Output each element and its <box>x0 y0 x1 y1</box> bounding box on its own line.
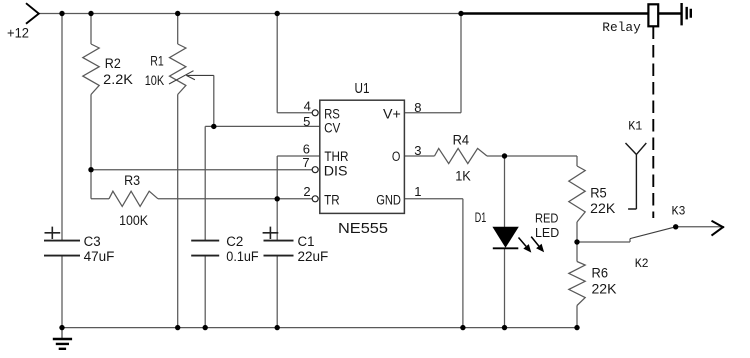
svg-text:LED: LED <box>535 226 559 240</box>
svg-text:3: 3 <box>414 143 421 158</box>
svg-text:Relay: Relay <box>602 20 641 35</box>
svg-text:TR: TR <box>324 193 340 208</box>
svg-text:R3: R3 <box>124 173 140 188</box>
svg-text:2: 2 <box>303 184 310 199</box>
svg-text:D1: D1 <box>475 210 487 225</box>
svg-text:0.1uF: 0.1uF <box>226 249 258 264</box>
svg-text:22uF: 22uF <box>298 249 329 264</box>
svg-text:DIS: DIS <box>324 164 348 179</box>
svg-text:RS: RS <box>324 107 340 122</box>
svg-text:K3: K3 <box>672 204 686 219</box>
svg-text:7: 7 <box>302 155 309 170</box>
svg-text:C1: C1 <box>298 234 315 249</box>
svg-text:R1: R1 <box>150 53 164 68</box>
svg-text:R5: R5 <box>590 185 607 200</box>
svg-text:47uF: 47uF <box>84 249 115 264</box>
svg-text:GND: GND <box>376 193 401 208</box>
svg-text:K1: K1 <box>628 118 642 133</box>
svg-text:10K: 10K <box>145 73 165 88</box>
svg-text:RED: RED <box>535 212 558 226</box>
svg-text:THR: THR <box>324 149 348 164</box>
svg-text:22K: 22K <box>592 282 617 297</box>
svg-text:C2: C2 <box>226 234 243 249</box>
svg-text:4: 4 <box>304 98 311 113</box>
svg-text:22K: 22K <box>590 201 615 216</box>
svg-text:O: O <box>392 149 401 164</box>
svg-text:5: 5 <box>303 114 310 129</box>
svg-text:R2: R2 <box>105 56 121 71</box>
svg-text:2.2K: 2.2K <box>103 72 133 87</box>
svg-text:V+: V+ <box>383 107 401 122</box>
svg-text:R4: R4 <box>453 132 470 147</box>
svg-text:CV: CV <box>324 121 340 136</box>
svg-text:C3: C3 <box>84 234 101 249</box>
svg-text:K2: K2 <box>635 256 649 271</box>
svg-text:R6: R6 <box>592 266 609 281</box>
svg-text:8: 8 <box>414 100 421 115</box>
svg-text:U1: U1 <box>355 81 370 97</box>
svg-text:+12: +12 <box>7 26 29 41</box>
svg-text:1: 1 <box>414 184 421 199</box>
svg-text:100K: 100K <box>119 213 148 228</box>
svg-text:NE555: NE555 <box>338 221 388 237</box>
svg-text:1K: 1K <box>455 169 471 184</box>
